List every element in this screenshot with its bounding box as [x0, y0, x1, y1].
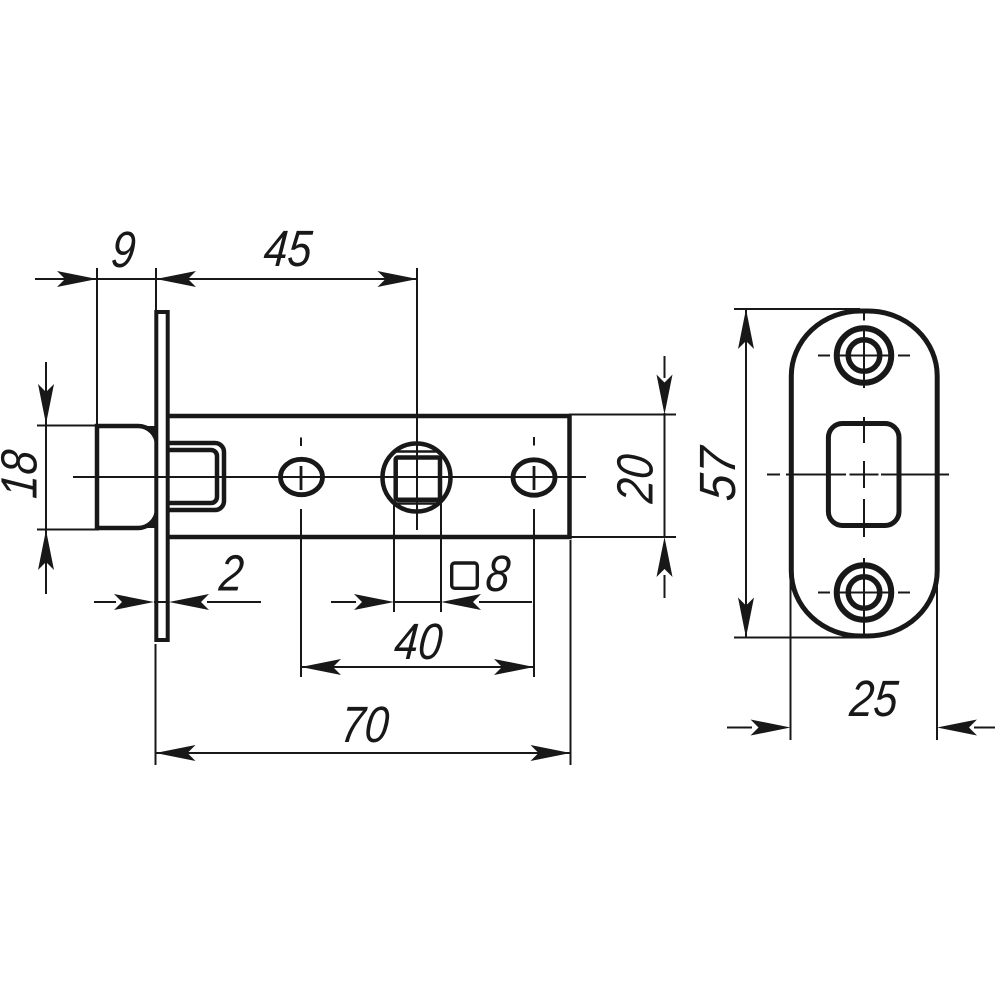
- ext line x571: [570, 540, 572, 765]
- arrow 57 top up: [738, 309, 754, 349]
- horizontal centerline: [73, 476, 586, 478]
- arrow 2 right left-pointing: [169, 594, 209, 610]
- spindle circle: [383, 444, 451, 512]
- svg-text:25: 25: [847, 671, 901, 728]
- screw bottom dashes: [818, 592, 830, 594]
- dim 25 right tail: [974, 727, 995, 729]
- arrow 25 right left-pointing: [937, 720, 977, 736]
- dim 40 line: [301, 666, 534, 668]
- screw hole top outer: [837, 328, 892, 383]
- ext line x155.5 lower: [155, 644, 157, 765]
- rect hole cross: [850, 474, 879, 476]
- square symbol: [452, 563, 478, 588]
- svg-text:57: 57: [690, 443, 747, 503]
- screw top dashes: [818, 355, 830, 357]
- arrow sq8 left right-pointing: [354, 594, 394, 610]
- arrow 20 bottom up: [657, 537, 673, 577]
- arrow 40 left: [301, 659, 341, 675]
- dim 25 left tail: [727, 727, 752, 729]
- spindle bottom chord: [395, 502, 439, 505]
- ext 57 top: [734, 308, 860, 310]
- svg-text:2: 2: [216, 545, 246, 602]
- arrow 18 bottom up: [38, 530, 54, 570]
- bolt head: [97, 426, 157, 528]
- ext 57 bottom: [734, 637, 864, 639]
- svg-text:70: 70: [339, 697, 392, 754]
- ext 25 left: [790, 578, 792, 740]
- screw hole bottom outer: [837, 565, 892, 620]
- screw bottom cross: [836, 592, 893, 594]
- spindle top chord: [395, 450, 439, 453]
- rect hole v marks: [863, 417, 865, 443]
- ext line x97: [96, 268, 98, 426]
- faceplate (side): [156, 312, 167, 640]
- latch body: [169, 416, 570, 537]
- svg-text:8: 8: [484, 546, 513, 603]
- dim 18 top line: [45, 362, 47, 594]
- ext line x156: [155, 268, 157, 311]
- bolt head bottom-right wedge: [138, 509, 157, 528]
- spindle vertical centerline: [416, 268, 418, 530]
- svg-text:20: 20: [607, 452, 664, 506]
- arrow 57 bottom down: [738, 598, 754, 638]
- arrow 70 left: [156, 745, 196, 761]
- dim 2 left tail: [94, 601, 116, 603]
- sq8 left tail: [331, 601, 356, 603]
- arrow 20 top down: [657, 375, 673, 415]
- screw top cross: [836, 355, 893, 357]
- arrow at 418 right: [378, 271, 418, 287]
- arrow at 156 left: [156, 271, 196, 287]
- arrow 18 top down: [38, 384, 54, 424]
- dim 20 ext bottom: [569, 536, 676, 538]
- arrow 25 left right-pointing: [751, 720, 791, 736]
- dim 57 line: [745, 309, 747, 638]
- arrow 40 right: [494, 659, 534, 675]
- hole 3 center marks: [533, 437, 535, 446]
- dim 20 top tail: [664, 356, 666, 378]
- dim 2 middle line: [154, 601, 169, 603]
- arrow 2 left right-pointing: [114, 594, 154, 610]
- dim 20 middle line: [664, 413, 666, 538]
- inner bolt tail outer: [168, 443, 224, 510]
- screw hole bottom inner: [848, 577, 880, 609]
- svg-text:18: 18: [0, 448, 49, 501]
- dim 2 right tail: [207, 601, 261, 603]
- hole 1 center marks: [300, 438, 302, 447]
- plate horizontal centerline: [767, 474, 780, 476]
- sq8 ext line right: [440, 502, 442, 612]
- sq8 middle line: [394, 601, 441, 603]
- sq8 right tail: [479, 601, 532, 603]
- bolt head top-right wedge: [138, 426, 157, 445]
- arrow 70 right: [531, 745, 571, 761]
- inner bolt tail inner: [168, 450, 217, 503]
- ext line y529: [37, 529, 99, 531]
- plate outline: [791, 311, 937, 636]
- arrow sq8 right left-pointing: [441, 594, 481, 610]
- dim 70 line: [156, 752, 571, 754]
- dim 20 bottom tail: [664, 575, 666, 598]
- sq8 ext line left: [393, 502, 395, 612]
- dim line 9/45: [35, 278, 418, 280]
- arrow at 97 right: [57, 271, 97, 287]
- rect hole: [828, 424, 899, 526]
- svg-text:9: 9: [109, 222, 138, 279]
- spindle square: [396, 458, 440, 500]
- ext line y425: [37, 425, 99, 427]
- svg-text:40: 40: [392, 614, 445, 671]
- dim 20 ext top: [569, 414, 676, 416]
- hole 1: [281, 459, 323, 494]
- hole 3: [513, 460, 555, 495]
- svg-text:45: 45: [262, 221, 315, 278]
- ext 25 right: [936, 578, 938, 740]
- screw hole top inner: [848, 340, 880, 372]
